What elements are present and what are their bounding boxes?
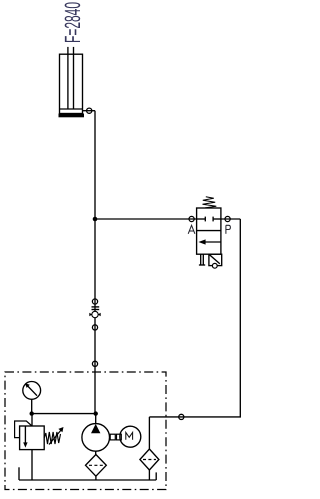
tank line [19,479,156,481]
valve V1 body [197,208,221,254]
coupling K1 bars [92,306,100,308]
wire main vertical upper [94,111,96,219]
wire cylinder port to main line [83,110,96,112]
port node on return line [179,414,184,419]
wire below coupling [94,318,96,414]
relief valve RV1 pilot line [15,421,32,438]
relief valve RV1 adjust arrow [49,430,62,445]
port A node [189,216,194,221]
junction node J2 [30,411,34,415]
svg-text:F=2840: F=2840 [60,2,85,43]
coupling K1 body [92,311,98,317]
cylinder C1 body [60,54,83,113]
cylinder C1 bottom cap [59,114,85,118]
relief valve RV1 arrow [24,426,26,444]
valve V1 flow arrow [204,241,221,243]
wire relief valve to tank [31,450,33,480]
junction node J3 [94,411,98,415]
motor M1 [120,426,141,447]
wire right riser down [149,219,240,417]
relief valve RV1 body [20,426,45,450]
return filter F2 [148,417,150,449]
port node above coupling [92,299,97,304]
wire valve to P riser [221,218,240,220]
relief valve RV1 supply [31,414,33,426]
cylinder C1 piston rod [67,47,69,109]
port node [92,325,97,330]
pressure gauge G1 [23,382,41,400]
wire gauge to pump [32,413,96,415]
shaft coupling [110,434,115,440]
valve V1 spring [203,197,217,208]
port node at power unit [92,361,97,366]
wire main vertical middle [94,219,96,311]
valve V1 roller actuator [209,254,222,265]
label A [188,225,195,234]
port P node [225,216,230,221]
relief valve RV1 spring [44,432,60,444]
pump P1 [82,424,110,452]
valve V1 blocked port stubs [197,218,206,220]
valve V1 plunger actuator [200,254,202,265]
wire gauge stem [31,399,33,413]
label P [226,225,231,234]
pump P1 suction wire [95,451,97,454]
power unit enclosure [5,372,166,490]
port node at cylinder [87,108,92,113]
cylinder C1 piston [60,108,83,110]
wire branch to valve A [95,218,197,220]
junction node J1 [93,217,98,222]
pump P1 inlet wire [95,414,97,424]
suction filter F1 [86,455,107,477]
